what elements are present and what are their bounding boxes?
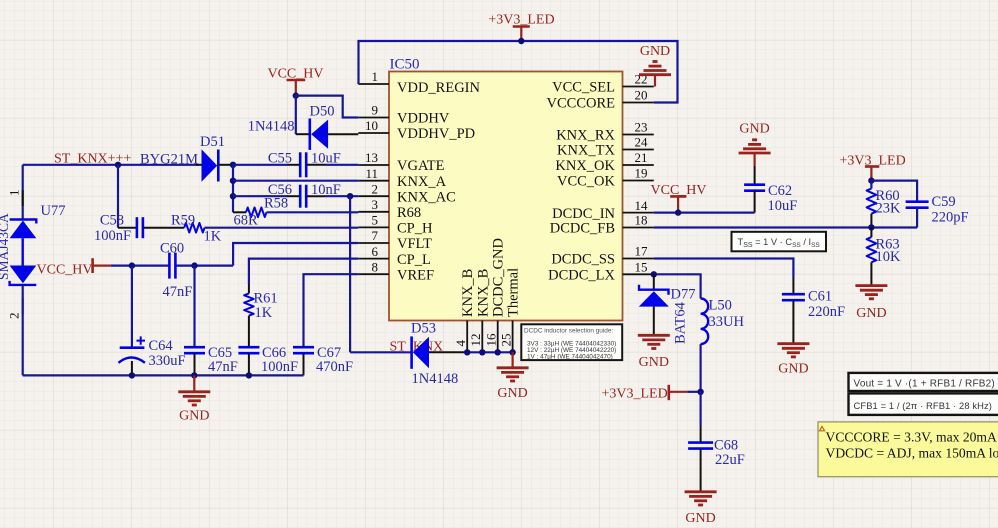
inductor L50 33UH xyxy=(701,298,745,345)
svg-text:CP_H: CP_H xyxy=(397,221,433,237)
pin 1 VDD_REGIN (left) xyxy=(358,69,480,96)
pin 20 VCCCORE (right) xyxy=(547,88,654,112)
svg-text:BYG21M: BYG21M xyxy=(140,152,198,168)
svg-text:C61: C61 xyxy=(808,289,832,305)
svg-text:VDDHV_PD: VDDHV_PD xyxy=(397,126,475,142)
svg-text:20: 20 xyxy=(635,88,648,103)
svg-text:GND: GND xyxy=(497,386,527,401)
capacitor C60 47nF xyxy=(160,241,233,301)
svg-text:CP_L: CP_L xyxy=(397,252,431,268)
wire long vertical to STKNX row xyxy=(349,196,351,352)
svg-text:VCC_HV: VCC_HV xyxy=(37,263,93,278)
svg-text:VREF: VREF xyxy=(397,267,434,283)
wire KNX_A row to pin11 xyxy=(233,180,358,182)
diode D53 1N4148 xyxy=(411,321,467,388)
svg-text:33UH: 33UH xyxy=(709,314,745,330)
pin 21 KNX_OK (right) xyxy=(555,150,653,174)
svg-text:D51: D51 xyxy=(200,134,225,150)
wire C64 column xyxy=(131,266,133,348)
power port +3V3_LED bottom xyxy=(602,385,688,402)
diode D77 BAT64 schottky xyxy=(639,274,696,344)
svg-text:GND: GND xyxy=(778,362,808,377)
node junction VCC_HV xyxy=(293,92,299,98)
wire ground bus xyxy=(23,374,304,376)
wire STKNX row xyxy=(350,351,410,353)
svg-text:GND: GND xyxy=(739,122,769,137)
diode D50 1N4148 xyxy=(248,104,359,150)
svg-text:DCDC_GND: DCDC_GND xyxy=(491,238,507,317)
wire junction column x233 xyxy=(232,165,234,213)
power port VCC_HV mid-left xyxy=(37,258,111,277)
svg-text:DCDC inductor selection guide:: DCDC inductor selection guide: xyxy=(524,328,613,335)
ground GND under C61 xyxy=(777,342,809,345)
wire C65 column xyxy=(193,266,195,348)
svg-text:BAT64: BAT64 xyxy=(673,301,689,344)
svg-text:GND: GND xyxy=(640,44,670,59)
svg-text:C59: C59 xyxy=(932,194,956,210)
svg-text:L50: L50 xyxy=(709,298,732,314)
node junction pin16 xyxy=(495,349,501,355)
svg-text:6: 6 xyxy=(372,244,379,259)
wire port to junction xyxy=(687,391,700,393)
pin 3 R68 (left) xyxy=(358,197,421,221)
resistor R60 23K xyxy=(867,181,901,228)
pin 13 VGATE (left) xyxy=(358,150,444,174)
wire ST_KNX row left xyxy=(23,164,199,166)
pin 9 VDDHV (left) xyxy=(358,103,450,127)
capacitor C58 100nF xyxy=(94,213,184,245)
svg-text:KNX_A: KNX_A xyxy=(397,174,447,190)
svg-text:23: 23 xyxy=(635,120,648,135)
op-amp U1 chip body IC50 xyxy=(389,72,623,321)
node junction row KNX_A xyxy=(230,178,236,184)
svg-text:5: 5 xyxy=(372,213,379,228)
node junction pin15/D77 xyxy=(651,271,657,277)
pin 15 DCDC_LX (right) xyxy=(548,260,654,284)
pin 22 VCC_SEL (right) xyxy=(552,72,654,96)
svg-text:DCDC_FB: DCDC_FB xyxy=(550,221,615,237)
wire drop to C58 row xyxy=(117,165,119,228)
svg-text:10uF: 10uF xyxy=(768,198,798,214)
wire VREF pin8 to C67 xyxy=(304,274,359,347)
svg-text:3: 3 xyxy=(372,197,379,212)
pin 7 VFLT (left) xyxy=(358,228,432,252)
note CFB1 formula box xyxy=(849,393,998,415)
svg-text:D53: D53 xyxy=(411,321,436,337)
svg-text:16: 16 xyxy=(484,333,499,347)
svg-text:1N4148: 1N4148 xyxy=(248,119,295,135)
svg-text:VGATE: VGATE xyxy=(397,158,445,174)
svg-text:100nF: 100nF xyxy=(94,228,131,244)
svg-text:220pF: 220pF xyxy=(932,210,969,226)
svg-text:22uF: 22uF xyxy=(715,452,745,468)
svg-text:2: 2 xyxy=(7,313,22,320)
svg-text:KNX_B: KNX_B xyxy=(475,269,491,317)
svg-text:D77: D77 xyxy=(671,287,696,303)
transistor U77 SMAJ43CA TVS diode xyxy=(0,203,65,285)
svg-text:DCDC_IN: DCDC_IN xyxy=(552,206,615,222)
node junction pin25 xyxy=(509,349,515,355)
note Vout formula box xyxy=(849,373,998,391)
pin 16 DCDC_GND (bottom) xyxy=(484,238,507,352)
svg-text:1V : 47µH (WE 74404042470): 1V : 47µH (WE 74404042470) xyxy=(527,353,613,360)
svg-text:12: 12 xyxy=(468,334,483,347)
svg-text:Vout = 1 V ·(1 + RFB1 / RFB2): Vout = 1 V ·(1 + RFB1 / RFB2) xyxy=(854,379,995,390)
node junction KNX_AC / STKNX column xyxy=(347,193,353,199)
capacitor C66 100nF xyxy=(238,345,298,375)
svg-text:100nF: 100nF xyxy=(261,359,298,375)
svg-text:Thermal: Thermal xyxy=(506,268,522,317)
resistor R59 1K xyxy=(171,213,358,245)
ground GND above C62 (inverted) xyxy=(739,122,771,167)
ground GND bus xyxy=(178,375,210,423)
svg-text:+3V3_LED: +3V3_LED xyxy=(602,387,668,402)
capacitor C59 220pF xyxy=(906,194,969,228)
svg-text:23K: 23K xyxy=(876,201,902,217)
pin 4 KNX_B (bottom) xyxy=(453,269,476,353)
svg-text:1: 1 xyxy=(7,190,22,197)
svg-text:C64: C64 xyxy=(149,338,174,354)
pin 14 DCDC_IN (right) xyxy=(552,198,654,222)
pin 19 VCC_OK (right) xyxy=(557,166,654,190)
svg-text:KNX_B: KNX_B xyxy=(460,269,476,317)
svg-text:9: 9 xyxy=(372,103,379,118)
capacitor C62 10uF xyxy=(744,166,797,214)
node junction after D51 xyxy=(230,162,236,168)
resistor R61 1K xyxy=(244,259,358,347)
node junction +3V3_LED right xyxy=(868,177,874,183)
node junction bus C64 xyxy=(129,372,135,378)
ground GND under chip xyxy=(497,352,529,401)
svg-text:17: 17 xyxy=(635,244,649,259)
capacitor C55 10uF xyxy=(233,150,358,177)
pin 12 KNX_B (bottom) xyxy=(468,269,491,353)
capacitor C64 330uF electrolytic xyxy=(119,336,186,375)
pin 5 CP_H (left) xyxy=(358,213,433,237)
wire L50 to C68 xyxy=(699,344,701,392)
node junction bus C66 xyxy=(246,372,252,378)
svg-text:KNX_AC: KNX_AC xyxy=(397,189,456,205)
svg-text:VCCCORE = 3.3V, max 20mA: VCCCORE = 3.3V, max 20mA xyxy=(826,429,997,444)
svg-text:7: 7 xyxy=(372,228,379,243)
svg-text:GND: GND xyxy=(856,306,886,321)
wire VCC_HV to pin9 xyxy=(296,96,359,118)
svg-text:VDDHV: VDDHV xyxy=(397,111,450,127)
svg-text:47nF: 47nF xyxy=(208,359,238,375)
svg-text:11: 11 xyxy=(365,166,378,181)
ground GND under D77 xyxy=(638,334,670,337)
svg-text:KNX_RX: KNX_RX xyxy=(556,128,615,144)
power port VCC_HV at pin14 xyxy=(651,183,707,213)
svg-text:C62: C62 xyxy=(768,183,792,199)
svg-text:GND: GND xyxy=(179,409,209,424)
svg-text:13: 13 xyxy=(365,150,378,165)
svg-text:2: 2 xyxy=(372,181,379,196)
svg-text:R58: R58 xyxy=(264,196,288,212)
wire +3V3_LED loop top xyxy=(359,41,678,103)
svg-text:U77: U77 xyxy=(41,203,66,219)
wire VCC_HV row xyxy=(111,265,169,267)
svg-text:21: 21 xyxy=(635,150,648,165)
resistor R58 68R xyxy=(233,196,358,229)
svg-text:10uF: 10uF xyxy=(311,150,341,166)
svg-text:68R: 68R xyxy=(234,213,259,229)
power port +3V3_LED top xyxy=(488,13,554,42)
node junction C65 column xyxy=(191,262,197,268)
wire left column bottom xyxy=(22,285,24,375)
pin 18 DCDC_FB (right) xyxy=(550,213,654,237)
node junction +3V3_LED bottom xyxy=(697,389,703,395)
svg-text:19: 19 xyxy=(635,166,648,181)
svg-text:220nF: 220nF xyxy=(808,304,845,320)
svg-text:KNX_TX: KNX_TX xyxy=(557,143,616,159)
node junction C64 column xyxy=(129,262,135,268)
svg-text:1N4148: 1N4148 xyxy=(412,371,459,387)
wire bottom pins row xyxy=(467,351,512,353)
svg-text:10K: 10K xyxy=(876,249,902,265)
node junction VCC_HV pin14 xyxy=(675,209,681,215)
svg-text:1K: 1K xyxy=(255,305,273,321)
power port VCC_HV top xyxy=(267,67,323,96)
wire DCDC_LX row xyxy=(654,274,701,298)
svg-text:4: 4 xyxy=(453,340,468,347)
svg-text:IC50: IC50 xyxy=(390,57,420,73)
svg-text:25: 25 xyxy=(498,334,513,347)
svg-text:GND: GND xyxy=(685,511,715,526)
svg-text:KNX_OK: KNX_OK xyxy=(555,158,615,174)
node junction +3V3_LED wire xyxy=(518,38,524,44)
wire VCC_HV down to D50 row xyxy=(295,96,297,135)
node junction row KNX_AC xyxy=(230,193,236,199)
svg-text:8: 8 xyxy=(372,259,379,274)
power port +3V3_LED right xyxy=(840,154,906,181)
capacitor C61 220nF xyxy=(782,277,845,343)
capacitor C65 47nF xyxy=(184,345,238,375)
svg-text:1: 1 xyxy=(372,69,379,84)
pin 23 KNX_RX (right) xyxy=(556,120,654,144)
node junction bus C65/GND xyxy=(191,372,197,378)
pin 10 VDDHV_PD (left) xyxy=(358,118,475,142)
wire DCDC_IN row xyxy=(654,212,755,214)
svg-text:CFB1 = 1 / (2π · RFB1 · 28 kHz: CFB1 = 1 / (2π · RFB1 · 28 kHz) xyxy=(854,400,993,411)
pin 17 DCDC_SS (right) xyxy=(551,244,653,268)
svg-text:VCC_OK: VCC_OK xyxy=(557,174,616,190)
svg-text:15: 15 xyxy=(635,260,648,275)
capacitor C68 22uF xyxy=(688,392,745,491)
svg-text:18: 18 xyxy=(635,213,648,228)
svg-text:VDD_REGIN: VDD_REGIN xyxy=(397,80,480,96)
wire DCDC_SS row to C61 xyxy=(654,259,794,278)
svg-text:VDCDC = ADJ, max 150mA lo: VDCDC = ADJ, max 150mA lo xyxy=(826,446,998,461)
svg-text:R59: R59 xyxy=(171,213,195,229)
pin 2 KNX_AC (left) xyxy=(358,181,456,205)
wire left column top xyxy=(22,165,24,220)
svg-text:VCCCORE: VCCCORE xyxy=(547,96,616,112)
svg-text:14: 14 xyxy=(635,198,649,213)
wire DCDC_FB row xyxy=(654,226,917,228)
svg-text:GND: GND xyxy=(639,355,669,370)
pin 11 KNX_A (left) xyxy=(358,166,446,190)
node junction pin4 xyxy=(464,349,470,355)
node junction FB/R60/R63 xyxy=(868,224,874,230)
wire to C59 top xyxy=(871,181,917,202)
pin 24 KNX_TX (right) xyxy=(557,135,654,159)
ground GND under C68 xyxy=(685,490,717,493)
svg-text:VFLT: VFLT xyxy=(397,236,432,252)
svg-text:470nF: 470nF xyxy=(316,359,353,375)
svg-text:R68: R68 xyxy=(397,205,421,221)
pin 25 Thermal (bottom) xyxy=(498,268,521,352)
svg-text:10: 10 xyxy=(365,118,378,133)
svg-text:24: 24 xyxy=(635,135,649,150)
node junction pin12 xyxy=(479,349,485,355)
svg-text:C55: C55 xyxy=(268,150,292,166)
note DCDC inductor selection guide xyxy=(521,324,622,360)
pin 6 CP_L (left) xyxy=(358,244,431,268)
note VCCCORE yellow comment box xyxy=(818,422,998,477)
svg-text:VCC_SEL: VCC_SEL xyxy=(552,80,615,96)
svg-text:C60: C60 xyxy=(160,241,184,257)
ground GND at pin22 (inverted) xyxy=(639,44,671,87)
diode D51 BYG21M xyxy=(196,134,233,182)
svg-text:SMAJ43CA: SMAJ43CA xyxy=(0,213,11,280)
svg-text:47nF: 47nF xyxy=(163,284,193,300)
resistor R63 10K xyxy=(867,227,901,285)
capacitor C67 470nF xyxy=(293,345,353,375)
svg-text:330uF: 330uF xyxy=(149,353,186,369)
pin 8 VREF (left) xyxy=(358,259,434,283)
node junction C58 drop xyxy=(115,162,121,168)
svg-text:DCDC_SS: DCDC_SS xyxy=(551,252,615,268)
svg-text:10nF: 10nF xyxy=(311,182,341,198)
svg-text:D50: D50 xyxy=(310,104,335,120)
svg-text:1K: 1K xyxy=(204,229,222,245)
svg-text:C58: C58 xyxy=(100,213,124,229)
svg-text:DCDC_LX: DCDC_LX xyxy=(548,268,615,284)
capacitor C56 10nF xyxy=(233,182,358,208)
wire up to VFLT pin7 xyxy=(233,243,358,266)
ground GND under R63 xyxy=(855,284,887,287)
note Tss formula box xyxy=(732,232,827,252)
